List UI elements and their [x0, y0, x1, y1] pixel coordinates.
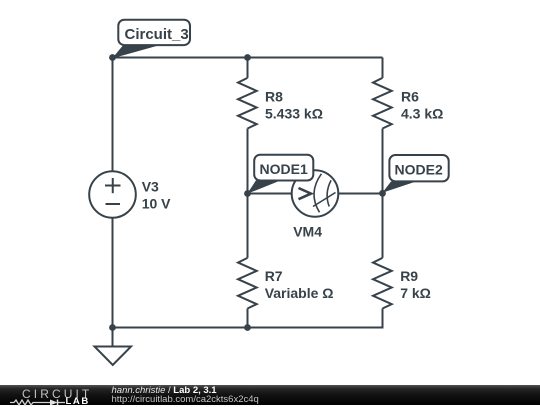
svg-text:7 kΩ: 7 kΩ — [400, 285, 431, 301]
svg-text:5.433 kΩ: 5.433 kΩ — [265, 106, 323, 122]
svg-text:R8: R8 — [265, 89, 283, 105]
svg-text:10 V: 10 V — [142, 196, 171, 212]
svg-text:R7: R7 — [265, 268, 283, 284]
svg-text:NODE2: NODE2 — [395, 162, 443, 178]
svg-text:V3: V3 — [142, 179, 159, 195]
svg-text:R6: R6 — [401, 89, 419, 105]
svg-text:R9: R9 — [400, 268, 418, 284]
svg-text:4.3 kΩ: 4.3 kΩ — [401, 106, 443, 122]
svg-text:NODE1: NODE1 — [260, 161, 308, 177]
svg-text:Variable Ω: Variable Ω — [265, 285, 334, 301]
svg-text:Circuit_3: Circuit_3 — [125, 26, 189, 43]
svg-text:VM4: VM4 — [293, 224, 322, 240]
